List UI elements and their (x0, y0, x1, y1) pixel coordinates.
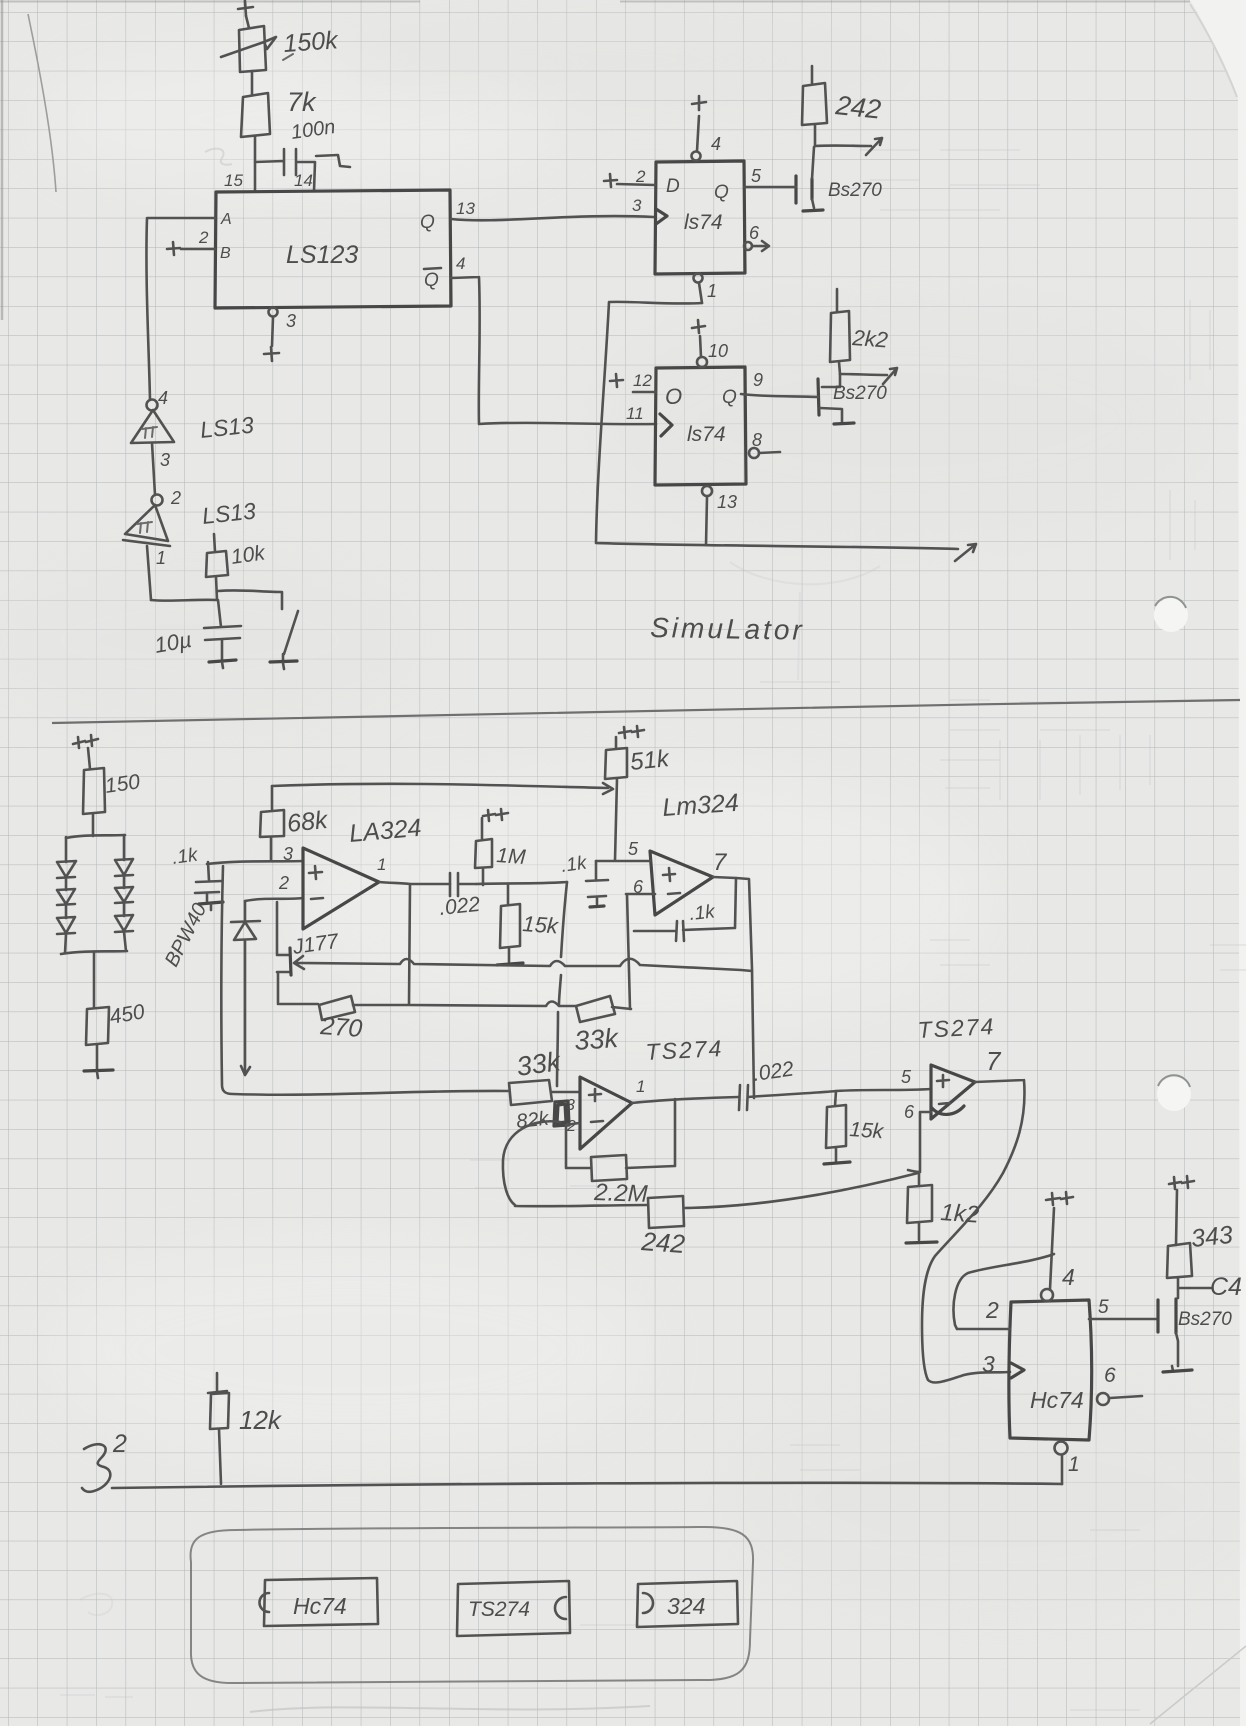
curve 82k to 242 rail (503, 1121, 560, 1205)
resistor 242 b (640, 1196, 687, 1259)
svg-text:15k: 15k (522, 911, 560, 938)
opamp output wire (379, 882, 450, 884)
FF1 pin1 clear (694, 274, 718, 304)
resistor 343 (1167, 1221, 1234, 1298)
svg-text:TS274: TS274 (468, 1598, 530, 1621)
svg-text:1: 1 (707, 281, 717, 301)
bottom rail (112, 1483, 1062, 1488)
svg-text:3: 3 (566, 1097, 575, 1114)
transistor J177 (277, 902, 341, 1004)
output tap a (815, 138, 882, 155)
svg-text:5: 5 (751, 166, 762, 186)
HC74 pin5 (1089, 1297, 1158, 1319)
net label C4 (1180, 1273, 1242, 1301)
svg-text:33k: 33k (573, 1023, 620, 1056)
wire opamp pin3 net (207, 861, 303, 864)
wire 68k to 51k node (272, 783, 613, 794)
svg-text:1: 1 (636, 1077, 645, 1096)
vertical right bend down to TS274 (557, 882, 567, 1086)
wire (93, 953, 96, 1008)
svg-text:11: 11 (626, 404, 644, 423)
svg-text:3: 3 (632, 196, 642, 215)
IC U1 LS123 (215, 190, 451, 308)
svg-text:14: 14 (294, 171, 313, 190)
resistor 33k bottom (509, 1046, 580, 1105)
HC74 pin6 (1097, 1364, 1142, 1405)
svg-text:3: 3 (286, 311, 296, 331)
resistor 15k b (824, 1091, 886, 1164)
ground LED (84, 1045, 113, 1078)
svg-text:Bs270: Bs270 (1178, 1309, 1232, 1330)
wire 242 to 1k2 node (684, 1173, 918, 1208)
wire pin5 (596, 860, 650, 863)
wire node to 10k (151, 598, 217, 602)
svg-text:2: 2 (566, 1118, 576, 1135)
bottom panel blob (191, 1527, 754, 1683)
svg-text:2: 2 (985, 1297, 999, 1323)
wire inv a out (152, 443, 170, 495)
svg-text:242: 242 (833, 90, 882, 125)
resistor 82k (515, 1101, 569, 1133)
svg-text:150: 150 (103, 770, 141, 798)
wire inv b out (147, 546, 166, 600)
HC74 pin2 wire and curve (954, 1254, 1054, 1329)
wire (246, 16, 249, 28)
capacitor BPW40 node (195, 862, 223, 910)
resistor 68k (260, 786, 330, 861)
inverter LS13 a (131, 388, 255, 443)
punch hole bottom (1157, 1075, 1191, 1111)
op-amp U6 TS274 a (566, 1035, 724, 1149)
svg-text:13: 13 (456, 199, 475, 218)
power plus top (238, 1, 253, 16)
svg-text:343: 343 (1190, 1221, 1235, 1253)
svg-text:Hc74: Hc74 (293, 1593, 347, 1619)
svg-text:C4: C4 (1210, 1273, 1242, 1301)
wire (251, 71, 254, 95)
LED string left (57, 837, 76, 953)
svg-text:7k: 7k (287, 87, 317, 117)
LED string right (115, 835, 133, 951)
FF1 pin4 preset (692, 96, 722, 161)
switch (218, 590, 298, 669)
svg-text:3: 3 (982, 1351, 995, 1377)
svg-text:5: 5 (1098, 1297, 1109, 1318)
FF2 pin13 clear (702, 486, 737, 545)
svg-text:Q: Q (714, 182, 729, 203)
svg-text:150k: 150k (282, 26, 340, 58)
svg-text:1: 1 (377, 855, 386, 874)
transistor Q3 BS270 (1158, 1299, 1232, 1372)
resistor 2k2 (830, 289, 889, 374)
pinout box TS274 (457, 1581, 570, 1636)
svg-text:15: 15 (224, 171, 243, 190)
resistor 10k (206, 534, 268, 600)
svg-text:2: 2 (198, 228, 209, 247)
wire pin6 (626, 894, 655, 1009)
svg-text:10k: 10k (229, 541, 267, 569)
svg-text:8: 8 (752, 430, 762, 450)
wire (88, 748, 90, 769)
feedback cap .1k c (634, 878, 736, 941)
svg-text:Hc74: Hc74 (1030, 1387, 1084, 1413)
wire Q4 to FF2 clock (451, 277, 656, 424)
svg-text:.1k: .1k (171, 844, 201, 869)
op-amp U7 TS274 b (901, 1013, 1002, 1122)
svg-text:LS123: LS123 (286, 241, 358, 269)
output tap b (840, 368, 897, 384)
svg-text:2.2M: 2.2M (593, 1179, 648, 1208)
svg-text:4: 4 (1062, 1264, 1075, 1290)
svg-text:1: 1 (1068, 1453, 1080, 1476)
svg-text:15k: 15k (849, 1118, 886, 1143)
svg-text:Bs270: Bs270 (828, 180, 882, 201)
capacitor .022 a (438, 873, 481, 920)
svg-text:A: A (220, 211, 232, 228)
svg-text:6: 6 (904, 1102, 915, 1122)
svg-text:5: 5 (628, 839, 639, 859)
svg-text:Q: Q (722, 387, 737, 408)
svg-text:324: 324 (667, 1593, 705, 1619)
IC U8 HC74 (1009, 1300, 1092, 1440)
capacitor 10u (153, 600, 241, 668)
gate rail (302, 959, 752, 971)
HC74 pin4 preset (1041, 1192, 1075, 1301)
wire to pin 15 (254, 136, 257, 191)
output pin7 LM324 (713, 849, 754, 1098)
svg-text:4: 4 (711, 134, 721, 154)
svg-text:TS274: TS274 (645, 1035, 724, 1065)
svg-text:B: B (220, 245, 231, 262)
resistor 150 (83, 768, 142, 814)
wire pin A to inverter (146, 218, 215, 400)
FF2 pin12 D input (610, 371, 656, 392)
svg-text:ls74: ls74 (687, 423, 726, 446)
IC U2 LS74 first (655, 161, 745, 274)
svg-text:10: 10 (708, 341, 728, 361)
svg-text:3: 3 (160, 450, 170, 470)
svg-text:ls74: ls74 (684, 211, 723, 234)
pin 3 bottom (264, 308, 296, 362)
svg-text:SimuLator: SimuLator (650, 612, 805, 646)
transistor Q1 BS270 (744, 147, 882, 211)
output TS274b S curve to HC74 clock (922, 1080, 1024, 1383)
FF1 pin6 output (744, 223, 769, 251)
svg-text:2: 2 (635, 167, 646, 186)
potentiometer 150k (221, 26, 340, 72)
HC74 pin1 clear (1055, 1442, 1080, 1485)
svg-text:.022: .022 (438, 893, 481, 920)
resistor 270 (319, 996, 364, 1043)
rail to 242 (515, 1205, 647, 1206)
power plusplus LED branch (73, 735, 98, 748)
svg-text:4: 4 (158, 388, 168, 408)
resistor 1M (475, 809, 527, 885)
resistor 1k2 (906, 1172, 980, 1243)
wire opamp pin2 net (245, 898, 303, 901)
pin 2 input B (167, 228, 215, 255)
FF2 pin10 preset (692, 320, 728, 367)
resistor 450 (86, 1000, 147, 1045)
wire (92, 814, 95, 836)
capacitor .1k b (560, 852, 608, 907)
punch hole top (1154, 597, 1188, 632)
svg-text:2: 2 (112, 1430, 127, 1458)
FF2 pin8 output (749, 430, 780, 458)
wire big loop left (221, 866, 508, 1095)
svg-text:3: 3 (283, 844, 293, 864)
resistor 33k top (573, 996, 631, 1056)
svg-text:242: 242 (640, 1226, 687, 1259)
transistor Q2 BS270 (741, 374, 887, 424)
svg-text:Q: Q (420, 212, 435, 233)
svg-text:D: D (666, 176, 680, 197)
page mark 3 squared (82, 1430, 127, 1492)
op-amp U4 LA324 (278, 814, 423, 929)
resistor 7k (241, 87, 317, 137)
resistor 51k (605, 726, 672, 860)
diode D1 (231, 901, 260, 1075)
vertical to 270 rail (409, 884, 410, 1004)
svg-text:2: 2 (170, 488, 181, 508)
svg-text:.1k: .1k (560, 852, 590, 877)
svg-text:Lm324: Lm324 (661, 789, 739, 822)
svg-text:13: 13 (717, 492, 737, 512)
rail 33k row (280, 1002, 575, 1007)
svg-text:5: 5 (901, 1067, 912, 1087)
svg-text:270: 270 (319, 1012, 364, 1043)
svg-text:TS274: TS274 (917, 1013, 996, 1043)
svg-text:6: 6 (749, 223, 760, 243)
wire pin6 TS274b (908, 1112, 931, 1172)
resistor 12k (208, 1373, 283, 1484)
op-amp U5 LM324 (628, 789, 740, 915)
divider line (52, 700, 1240, 723)
wire Q13 to FF1 clock (451, 216, 654, 220)
capacitor 100n (255, 116, 350, 191)
FF1 pin2 D input (604, 167, 655, 187)
svg-text:6: 6 (1104, 1364, 1116, 1387)
svg-text:68k: 68k (286, 806, 331, 838)
svg-text:33k: 33k (515, 1046, 564, 1082)
resistor 242 top (802, 66, 882, 146)
output TS274a wire (632, 1097, 739, 1103)
svg-text:Q: Q (424, 270, 439, 291)
capacitor .022 b (739, 1057, 795, 1110)
pinout box HC74 (260, 1578, 379, 1626)
power 343 branch (1169, 1176, 1194, 1245)
IC U3 LS74 second (655, 367, 746, 485)
svg-text:12k: 12k (239, 1405, 283, 1435)
feedback 2.2M (566, 1099, 675, 1208)
svg-text:2: 2 (278, 873, 289, 893)
svg-text:9: 9 (753, 370, 763, 390)
svg-text:.1k: .1k (688, 901, 717, 925)
wire to TS274b pin5 (748, 1089, 931, 1097)
resistor 15k a (497, 885, 560, 965)
inverter LS13 b (123, 488, 257, 546)
svg-text:51k: 51k (629, 745, 672, 776)
svg-text:1: 1 (156, 548, 166, 568)
svg-text:O: O (665, 384, 682, 409)
LED array top bar (66, 835, 125, 838)
svg-text:7: 7 (713, 849, 728, 876)
wire node to bend (476, 882, 567, 884)
svg-text:2k2: 2k2 (851, 325, 889, 352)
LED array bottom bar (61, 951, 127, 954)
wire clear rail (596, 302, 976, 561)
svg-text:7: 7 (986, 1046, 1002, 1076)
svg-text:12: 12 (633, 371, 652, 390)
svg-text:4: 4 (456, 254, 465, 273)
pinout box 324 (637, 1581, 738, 1627)
svg-text:Bs270: Bs270 (833, 383, 887, 404)
svg-text:1M: 1M (496, 844, 527, 869)
